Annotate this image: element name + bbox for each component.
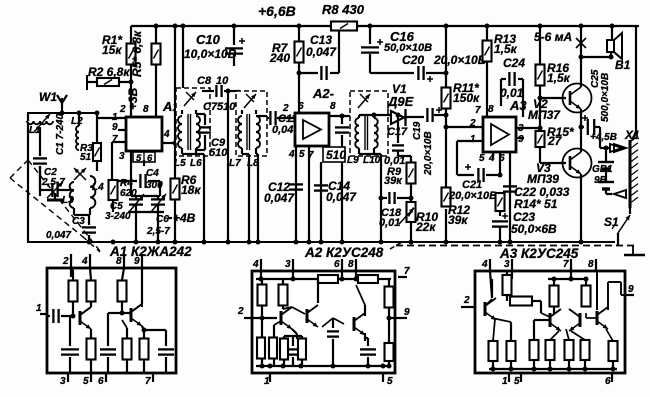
- svg-text:18к: 18к: [181, 183, 201, 197]
- svg-text:2: 2: [62, 256, 69, 267]
- svg-text:6: 6: [98, 376, 104, 387]
- svg-text:1,5к: 1,5к: [494, 42, 518, 56]
- svg-text:20,0×10В: 20,0×10В: [433, 53, 487, 67]
- svg-text:240: 240: [269, 51, 290, 65]
- svg-text:+6,6В: +6,6В: [258, 3, 296, 19]
- svg-text:20,0×10В: 20,0×10В: [423, 131, 434, 176]
- svg-text:4: 4: [252, 259, 259, 270]
- svg-text:L10: L10: [363, 155, 381, 166]
- svg-text:620: 620: [120, 188, 137, 199]
- svg-text:8: 8: [330, 101, 336, 112]
- svg-text:9В: 9В: [594, 175, 607, 186]
- svg-text:5: 5: [387, 376, 393, 387]
- svg-text:8: 8: [488, 104, 494, 115]
- svg-text:5: 5: [299, 149, 305, 160]
- svg-text:R14* 51: R14* 51: [514, 197, 558, 211]
- svg-text:С19: С19: [412, 121, 423, 140]
- svg-text:7: 7: [145, 376, 151, 387]
- svg-text:1: 1: [502, 376, 508, 387]
- svg-text:GB1: GB1: [592, 164, 613, 175]
- svg-text:3-240: 3-240: [105, 211, 131, 222]
- svg-text:150к: 150к: [453, 91, 480, 105]
- svg-text:6: 6: [147, 153, 153, 164]
- svg-text:МП39: МП39: [527, 172, 559, 186]
- svg-text:50,0×6В: 50,0×6В: [511, 222, 557, 236]
- svg-text:510: 510: [209, 147, 228, 159]
- svg-text:А2 К2УС248: А2 К2УС248: [304, 245, 384, 260]
- svg-text:27: 27: [547, 134, 563, 148]
- svg-text:7: 7: [563, 259, 569, 270]
- svg-text:20,0×10В: 20,0×10В: [448, 190, 497, 202]
- svg-text:0,047: 0,047: [306, 45, 337, 59]
- svg-text:9: 9: [628, 284, 634, 295]
- svg-text:R5* 6,8к: R5* 6,8к: [130, 30, 144, 77]
- svg-text:4: 4: [288, 149, 295, 160]
- svg-text:1,5к: 1,5к: [547, 71, 571, 85]
- svg-text:8: 8: [348, 259, 354, 270]
- svg-text:L3: L3: [62, 195, 74, 206]
- svg-text:С1 7-240: С1 7-240: [55, 113, 66, 155]
- svg-text:0,047: 0,047: [264, 191, 295, 205]
- svg-text:L9: L9: [347, 155, 359, 166]
- svg-text:S1: S1: [604, 215, 619, 229]
- svg-text:L7: L7: [229, 158, 241, 169]
- svg-text:5: 5: [83, 376, 89, 387]
- svg-text:5: 5: [514, 376, 520, 387]
- svg-text:0,047: 0,047: [326, 190, 357, 204]
- svg-text:3: 3: [285, 259, 291, 270]
- svg-text:22к: 22к: [415, 220, 436, 234]
- svg-text:С10: С10: [196, 32, 221, 47]
- svg-text:1: 1: [36, 303, 42, 314]
- svg-text:В1: В1: [615, 58, 631, 72]
- svg-text:9: 9: [112, 122, 118, 133]
- svg-text:С4: С4: [146, 168, 159, 179]
- svg-text:51: 51: [80, 152, 92, 163]
- svg-text:7: 7: [475, 105, 481, 116]
- svg-text:510: 510: [326, 148, 346, 162]
- svg-text:2: 2: [282, 103, 289, 114]
- svg-text:6: 6: [605, 376, 611, 387]
- svg-text:9: 9: [518, 134, 524, 145]
- svg-text:А2-: А2-: [312, 86, 334, 101]
- svg-text:С8: С8: [197, 75, 212, 87]
- svg-text:9: 9: [134, 256, 140, 267]
- svg-text:W1: W1: [39, 90, 57, 104]
- svg-text:1: 1: [470, 134, 476, 145]
- svg-text:5: 5: [136, 153, 142, 164]
- svg-text:5-6 мА: 5-6 мА: [534, 30, 572, 44]
- svg-text:3: 3: [119, 151, 125, 162]
- svg-text:1: 1: [264, 376, 270, 387]
- svg-text:4: 4: [481, 259, 488, 270]
- svg-text:L5: L5: [174, 158, 186, 169]
- svg-text:2: 2: [463, 295, 470, 306]
- svg-text:9: 9: [404, 307, 410, 318]
- svg-text:Д9Е: Д9Е: [387, 94, 414, 109]
- svg-text:5: 5: [479, 153, 485, 164]
- svg-text:3: 3: [504, 259, 510, 270]
- svg-text:6: 6: [334, 259, 340, 270]
- svg-text:4: 4: [81, 256, 88, 267]
- svg-text:L2: L2: [71, 116, 83, 127]
- svg-text:С6: С6: [156, 214, 169, 225]
- svg-text:8: 8: [588, 259, 594, 270]
- svg-text:39к: 39к: [384, 175, 403, 187]
- svg-text:+4,5В: +4,5В: [590, 132, 617, 143]
- svg-text:8: 8: [116, 256, 122, 267]
- svg-text:0,047: 0,047: [46, 230, 71, 241]
- svg-text:2: 2: [119, 104, 126, 115]
- svg-text:+3В: +3В: [126, 87, 140, 110]
- svg-text:С7510: С7510: [203, 101, 236, 113]
- svg-text:15к: 15к: [102, 43, 122, 57]
- svg-text:8: 8: [143, 104, 149, 115]
- svg-text:L6: L6: [190, 158, 202, 169]
- svg-text:7: 7: [404, 266, 410, 277]
- svg-text:39к: 39к: [448, 213, 468, 227]
- svg-text:R8 430: R8 430: [322, 2, 365, 17]
- svg-text:+4В: +4В: [173, 211, 196, 225]
- svg-text:МП37: МП37: [528, 108, 561, 122]
- svg-text:500,0×10В: 500,0×10В: [600, 73, 611, 122]
- svg-text:300: 300: [146, 180, 163, 191]
- svg-text:R2 6,8к: R2 6,8к: [88, 65, 130, 79]
- svg-text:С24: С24: [503, 56, 525, 70]
- svg-text:L8: L8: [247, 158, 259, 169]
- svg-text:3: 3: [60, 376, 66, 387]
- svg-text:С20: С20: [402, 53, 424, 67]
- svg-text:L4: L4: [92, 182, 104, 193]
- svg-text:С17: С17: [387, 126, 408, 138]
- svg-text:2,5-7: 2,5-7: [146, 226, 170, 237]
- svg-text:А3: А3: [509, 98, 527, 113]
- svg-text:0,01: 0,01: [379, 217, 400, 229]
- svg-text:4: 4: [163, 129, 170, 140]
- svg-text:2: 2: [237, 306, 244, 317]
